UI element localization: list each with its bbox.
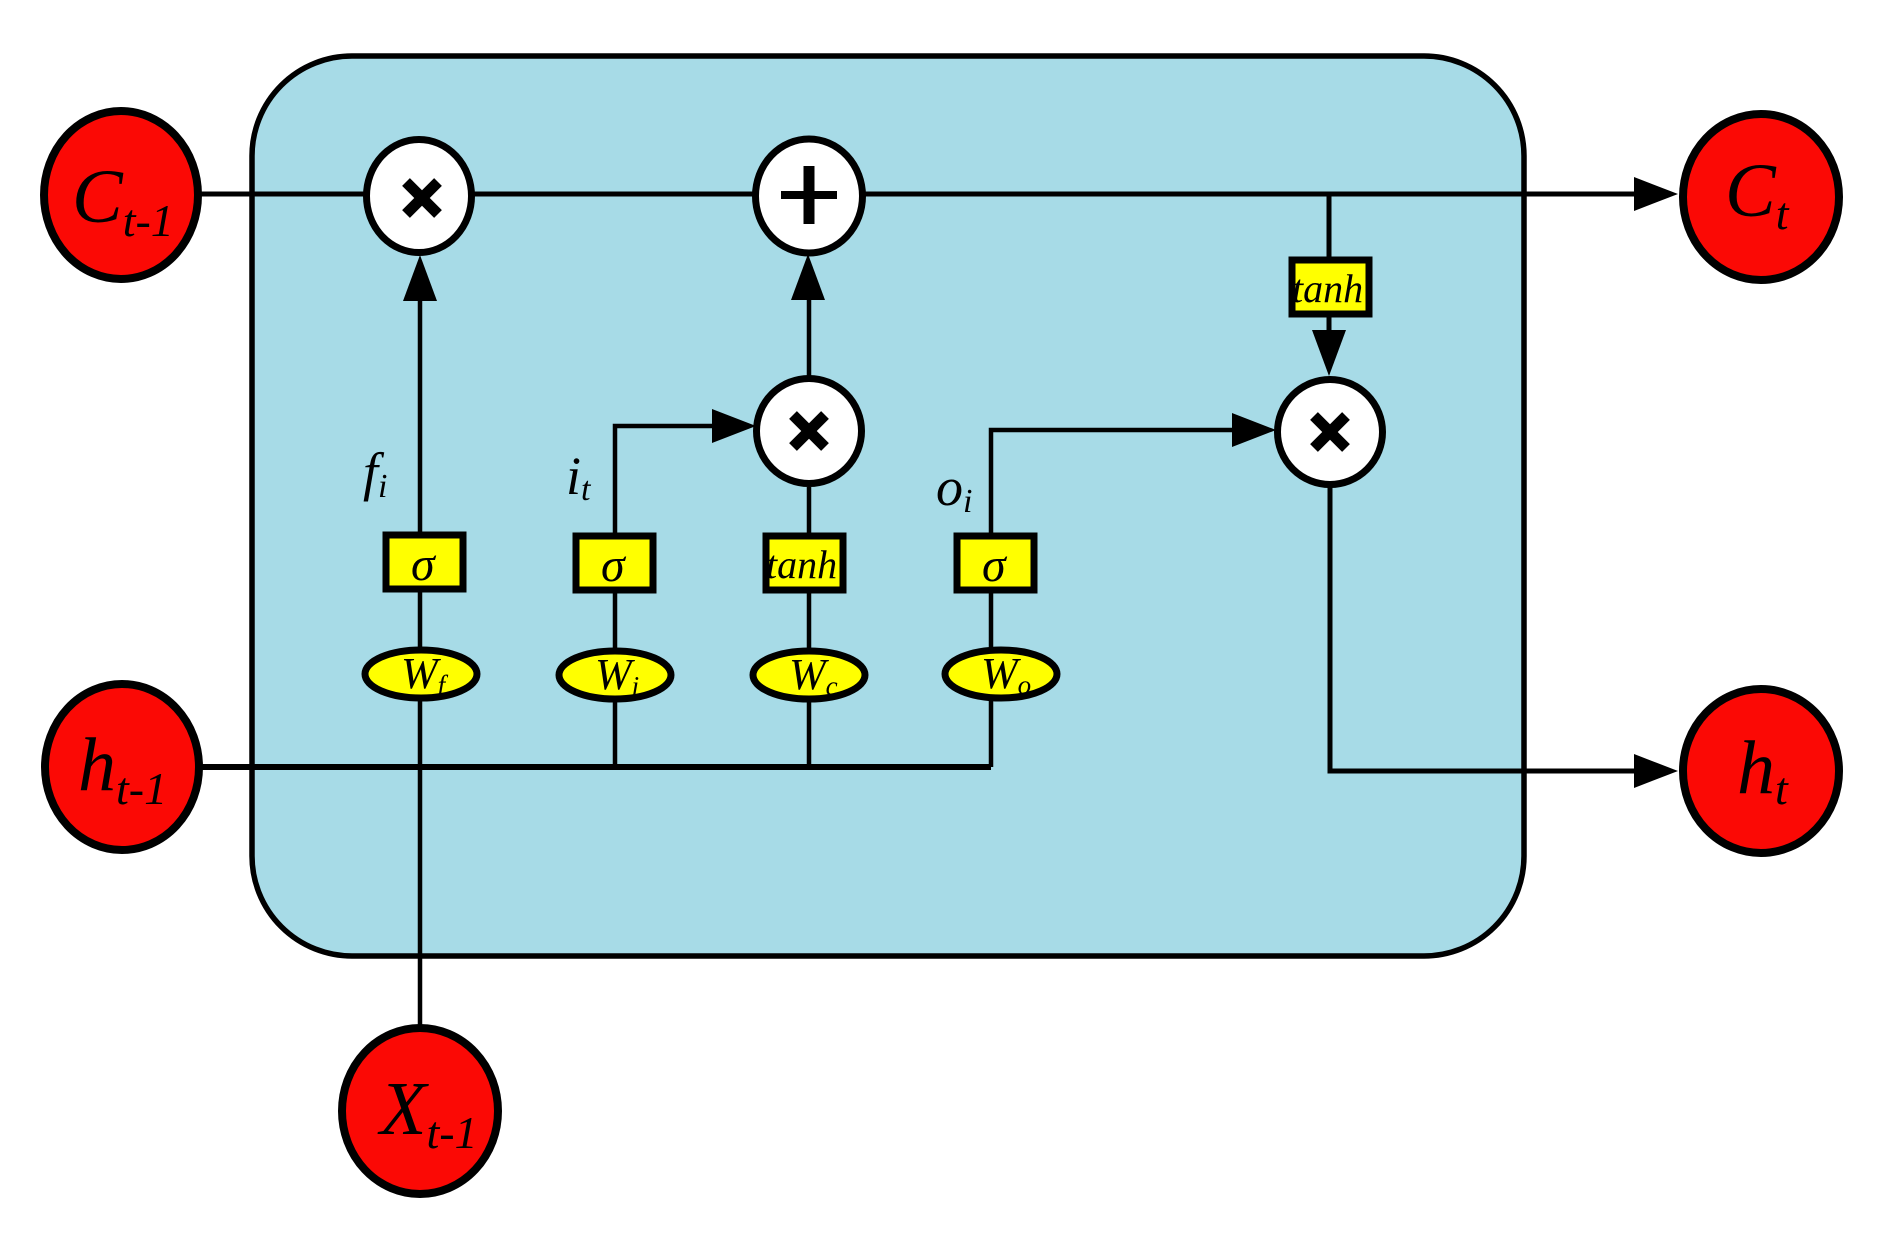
weight ellipse W_c (753, 651, 865, 699)
weight ellipse W_f (365, 650, 477, 698)
svg-text:σ: σ (982, 539, 1008, 592)
weight ellipse W_o (945, 650, 1057, 698)
wire: x3 down and right to h_t (1330, 484, 1634, 771)
wire: h line from h_t-1 (198, 764, 991, 770)
LSTM cell body (rounded rect) (252, 56, 1524, 956)
multiply circle x2 (757, 379, 862, 484)
multiply circle x1 (367, 140, 472, 253)
svg-text:tanh: tanh (766, 542, 837, 587)
weight ellipse W_i (559, 651, 671, 699)
sigma box f (386, 535, 463, 589)
wire: tanh box to x3 with arrowhead (1327, 316, 1332, 332)
node C_t (red circle) (1683, 114, 1839, 280)
arrowhead into x2 (712, 409, 756, 443)
wire: branch down to tanh (top right) (1327, 194, 1332, 262)
arrowhead into x3 (1232, 413, 1276, 447)
wire: x2 up into + with arrowhead (807, 300, 812, 380)
sigma box i (576, 536, 653, 590)
node h_t-1 (red circle) (45, 684, 199, 850)
arrowhead into C_t (1634, 177, 1678, 211)
svg-text:tanh: tanh (1292, 266, 1363, 311)
tanh box c (766, 536, 843, 590)
tanh box top right (1292, 260, 1369, 314)
svg-text:σ: σ (601, 539, 627, 592)
sigma box o (957, 536, 1034, 590)
node X_t-1 (red circle) (342, 1028, 498, 1194)
svg-text:σ: σ (411, 538, 437, 591)
wire: C line from C_t-1 to C_t (198, 192, 1634, 197)
wire: o path up and right into x3 (991, 430, 1232, 767)
wire: f path from X_t-1 up to x1 (418, 300, 423, 1028)
add circle + (756, 139, 863, 253)
node h_t (red circle) (1683, 689, 1839, 853)
wire: i path up and right into x2 (615, 426, 712, 767)
arrowhead into h_t (1634, 754, 1678, 788)
wire: c path from h line up through tanh to x2 (807, 538, 812, 767)
node C_t-1 (red circle) (44, 111, 198, 279)
multiply circle x3 (1278, 380, 1383, 485)
arrowhead into x1 (403, 255, 437, 301)
